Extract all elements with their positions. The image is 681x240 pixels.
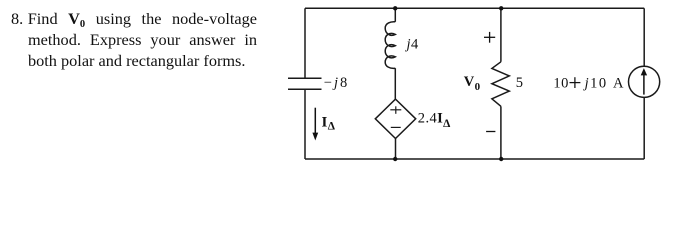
plus sign inside dependent source [390,106,401,114]
wire: left branch lower (capacitor to bottom-left corner) [304,89,306,159]
resistor R1 value 5 (zigzag) [492,62,509,107]
minus sign inside dependent source [391,126,401,128]
wire: right branch upper [643,8,645,66]
svg-text:10: 10 [553,75,569,91]
wire: inductor branch top stub [394,8,396,21]
node dot: resistor branch / top rail [499,6,503,10]
minus sign (resistor polarity bottom) [486,131,495,133]
inductor L1 value j4 [385,22,395,69]
svg-text:2.4IΔ: 2.4IΔ [418,110,451,130]
current source arrow [641,68,647,95]
problem statement text [11,9,257,72]
node dot: inductor branch / top rail [393,6,397,10]
svg-text:j4: j4 [405,36,419,52]
node dot: resistor branch / bottom rail [499,157,503,161]
svg-text:−j8: −j8 [324,75,349,91]
wire: top rail [305,7,644,9]
svg-text:5: 5 [516,75,524,91]
wire: bottom rail [305,158,644,160]
current source I1 (circle) value 10+j10 A [629,66,660,97]
wire: dependent source to bottom rail [395,139,397,160]
capacitor C1 value -j8 [288,78,322,89]
wire: inductor to dependent source [394,68,396,99]
wire: resistor to bottom rail [500,106,502,159]
wire: resistor branch top stub [500,8,502,62]
svg-text:V0: V0 [464,74,481,93]
wire: right branch lower [643,97,645,159]
node dot: dependent source / bottom rail [393,157,397,161]
svg-text:IΔ: IΔ [322,114,336,132]
plus sign in label 10+j10 A [570,77,581,88]
dependent source U1 (diamond) value 2.4I-delta [375,99,415,138]
plus sign (resistor polarity top) [484,32,495,43]
svg-text:j10 A: j10 A [583,75,625,91]
wire: left branch upper (top-left corner to capacitor) [304,8,306,78]
current arrow I-delta (left branch) [312,108,318,141]
